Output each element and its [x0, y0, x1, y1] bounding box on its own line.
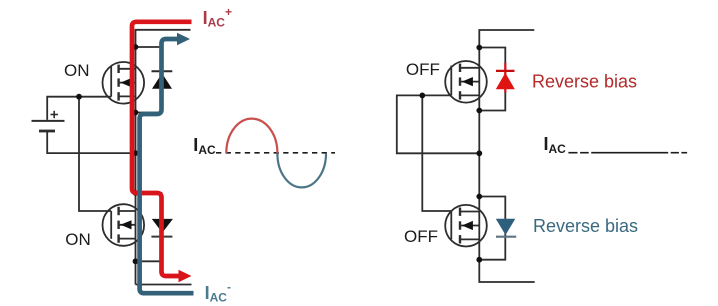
- node: right gate-drive tap junction: [419, 93, 425, 99]
- wire: battery negative to midpoint: [47, 132, 135, 153]
- svg-text:IAC: IAC: [544, 134, 567, 156]
- svg-text:IAC+: IAC+: [203, 5, 232, 30]
- node: right top diode-branch lower junction: [476, 108, 482, 114]
- node: red arrowhead bottom: [179, 270, 192, 283]
- curve: sine positive half (red): [226, 119, 277, 153]
- diode D2 body diode bottom-left: [151, 219, 173, 237]
- wire: bottom body-diode branch (left): [136, 193, 162, 261]
- node: right top diode-branch upper junction: [476, 45, 482, 51]
- svg-text:IAC-: IAC-: [205, 280, 231, 305]
- wire: top body-diode branch (right): [479, 48, 505, 111]
- wire: left main vertical rail: [135, 47, 137, 285]
- wire: left bottom output rail: [136, 284, 192, 286]
- node: teal arrowhead top: [177, 33, 190, 46]
- node: right bottom diode-branch lower junction: [476, 257, 482, 263]
- mosfet Q1 (left top, ON): [103, 62, 145, 104]
- curve: sine negative half (teal): [277, 154, 326, 188]
- svg-text:IAC: IAC: [193, 135, 216, 157]
- mosfet Q2 (left bottom, ON): [103, 204, 145, 246]
- svg-text:Reverse bias: Reverse bias: [532, 72, 637, 92]
- diode D4 body diode bottom-right (reverse biased, teal): [496, 219, 516, 237]
- wire: left top output rail: [136, 30, 191, 47]
- wire: top body-diode branch (left): [136, 47, 162, 113]
- battery V1: [32, 111, 65, 131]
- diode D3 body diode top-right (reverse biased, red): [496, 63, 515, 93]
- svg-text:OFF: OFF: [404, 227, 438, 246]
- node: left midpoint junction: [133, 150, 139, 156]
- node: left bottom diode-branch upper junction: [133, 190, 139, 196]
- node: left bottom diode-branch lower junction: [133, 258, 139, 264]
- svg-text:Reverse bias: Reverse bias: [533, 216, 638, 236]
- node: left top diode-branch upper junction: [133, 44, 139, 50]
- wire: thick teal current path (negative half): [140, 39, 194, 293]
- svg-text:ON: ON: [65, 230, 91, 249]
- wire: right gate-drive vertical to bottom gate: [422, 95, 451, 211]
- node: right bottom diode-branch upper junction: [476, 194, 482, 200]
- mosfet Q3 (right top, OFF): [445, 61, 487, 103]
- wire: right main rail with output stubs: [479, 30, 534, 282]
- svg-text:ON: ON: [64, 61, 90, 80]
- wire: right gate rail: [397, 95, 480, 153]
- mosfet Q4 (right bottom, OFF): [445, 205, 487, 247]
- wire: thick red current path (positive half): [132, 22, 192, 276]
- svg-text:OFF: OFF: [406, 60, 440, 79]
- node: gate-drive tap junction: [76, 94, 82, 100]
- diode D1 body diode top-left: [152, 71, 173, 89]
- RIGHT CIRCUIT: [397, 30, 535, 282]
- wire: right zero-current line (dash dash solid dash dash): [568, 152, 687, 154]
- node: right midpoint junction: [476, 150, 482, 156]
- node: left top diode-branch lower junction: [133, 110, 139, 116]
- wire: battery positive to top gate: [47, 97, 111, 120]
- wire: gate-drive vertical to bottom gate: [79, 97, 111, 211]
- wire: middle dashed zero line: [216, 152, 335, 154]
- wire: bottom body-diode branch (right): [479, 197, 505, 260]
